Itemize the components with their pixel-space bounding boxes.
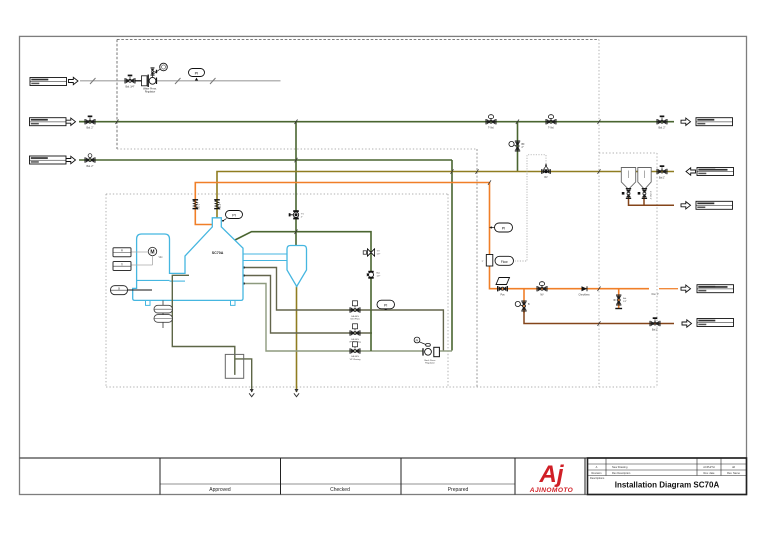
svg-text:PI: PI xyxy=(384,304,387,308)
svg-text:T50-1": T50-1" xyxy=(220,203,222,210)
svg-text:M: M xyxy=(150,250,154,256)
svg-text:PI: PI xyxy=(232,214,236,218)
svg-text:Aj: Aj xyxy=(539,461,565,488)
svg-text:Bal.: Bal. xyxy=(623,298,627,300)
svg-text:CA-50%: CA-50% xyxy=(351,338,359,341)
svg-text:Wai. P: Wai. P xyxy=(651,292,659,296)
svg-text:Bal.1": Bal.1" xyxy=(659,176,665,179)
svg-text:Back Press: Back Press xyxy=(424,359,436,362)
svg-text:T-Val.: T-Val. xyxy=(548,127,554,130)
svg-text:X-760 1": X-760 1" xyxy=(649,191,651,200)
svg-text:SI: SI xyxy=(118,287,121,290)
svg-text:Installation Diagram SC70A: Installation Diagram SC70A xyxy=(615,481,720,490)
svg-text:Checked: Checked xyxy=(330,487,350,493)
svg-text:Descriptions: Descriptions xyxy=(590,476,605,480)
svg-text:CA-60%: CA-60% xyxy=(351,315,359,318)
svg-text:CA-50%: CA-50% xyxy=(351,355,359,358)
svg-text:T.V: T.V xyxy=(301,214,305,216)
svg-text:Bal. 2": Bal. 2" xyxy=(659,127,666,130)
svg-text:ACPH/TH: ACPH/TH xyxy=(703,465,715,469)
svg-text:AJINOMOTO: AJINOMOTO xyxy=(529,487,574,494)
svg-text:PI: PI xyxy=(416,338,419,342)
svg-text:2": 2" xyxy=(301,217,303,219)
svg-text:Prepared: Prepared xyxy=(448,487,469,493)
svg-text:RV: RV xyxy=(544,176,548,179)
svg-text:Regulator: Regulator xyxy=(145,90,156,93)
svg-text:TI: TI xyxy=(121,263,123,266)
svg-text:2": 2" xyxy=(522,146,524,149)
svg-text:Rev. Name: Rev. Name xyxy=(727,471,740,475)
svg-text:T50-1": T50-1" xyxy=(199,203,201,210)
svg-text:1/2": 1/2" xyxy=(623,301,627,303)
svg-text:B: B xyxy=(528,303,530,306)
svg-text:Bal. 2": Bal. 2" xyxy=(87,127,94,130)
svg-text:Rev. date: Rev. date xyxy=(704,471,715,475)
svg-text:1": 1" xyxy=(482,261,484,263)
svg-text:Pos: Pos xyxy=(500,294,505,297)
svg-text:T.V: T.V xyxy=(377,251,381,253)
svg-text:dd: dd xyxy=(732,465,735,469)
svg-text:Bal.: Bal. xyxy=(377,273,381,275)
svg-text:PI: PI xyxy=(502,227,506,231)
svg-text:Flow: Flow xyxy=(501,260,508,264)
svg-text:Vibr.: Vibr. xyxy=(159,256,164,259)
svg-text:1/2": 1/2" xyxy=(377,276,381,278)
svg-text:Regulator: Regulator xyxy=(425,361,435,364)
svg-text:FI: FI xyxy=(121,250,123,253)
svg-text:Checkless: Checkless xyxy=(578,294,590,297)
svg-text:Revision: Revision xyxy=(592,471,603,475)
svg-text:1/2": 1/2" xyxy=(377,254,381,256)
svg-text:New Drawing: New Drawing xyxy=(612,465,628,469)
svg-text:SC70A: SC70A xyxy=(212,251,224,255)
svg-text:VP Closing: VP Closing xyxy=(350,359,362,361)
svg-text:NV: NV xyxy=(540,294,544,297)
svg-text:Bal. 2": Bal. 2" xyxy=(87,165,94,168)
svg-text:Bal.1": Bal.1" xyxy=(652,328,658,331)
svg-text:T-Val.: T-Val. xyxy=(488,127,494,130)
svg-text:Approved: Approved xyxy=(209,487,231,493)
svg-text:Bal. 3/4": Bal. 3/4" xyxy=(126,86,135,89)
svg-text:Inlet Flow: Inlet Flow xyxy=(350,317,360,320)
svg-text:PI: PI xyxy=(195,71,199,76)
svg-text:Rev Description: Rev Description xyxy=(612,471,631,475)
svg-text:A: A xyxy=(596,465,598,469)
